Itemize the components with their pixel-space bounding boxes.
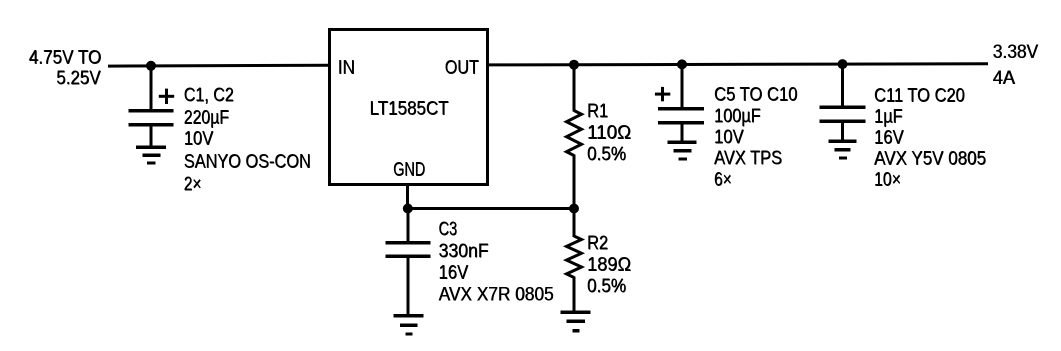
wire: rail down to C1 top plate <box>150 65 153 110</box>
svg-text:AVX X7R 0805: AVX X7R 0805 <box>439 283 554 305</box>
svg-text:GND: GND <box>393 159 425 181</box>
wire: R2 bottom to ground <box>573 277 576 312</box>
wire: C11 bottom plate to ground <box>841 123 844 140</box>
svg-text:4A: 4A <box>993 67 1016 89</box>
svg-text:3.38V: 3.38V <box>993 41 1039 63</box>
svg-text:2×: 2× <box>184 173 202 195</box>
svg-text:100µF: 100µF <box>714 105 761 127</box>
node: junction to C11-C20 <box>838 59 848 69</box>
svg-text:5.25V: 5.25V <box>56 67 101 89</box>
svg-text:IN: IN <box>338 57 355 79</box>
node: GND net junction <box>403 204 413 214</box>
op-amp/regulator U1 LT1585CT box <box>330 30 488 185</box>
ground symbol below R2 <box>561 311 591 333</box>
node: OUT junction to R1 <box>569 60 579 70</box>
svg-text:AVX TPS: AVX TPS <box>714 147 782 169</box>
wire: C3 bottom plate to ground <box>407 258 410 315</box>
svg-text:220µF: 220µF <box>184 107 229 129</box>
capacitor C3 top plate <box>386 241 431 245</box>
capacitor C5-C10 bottom plate <box>658 121 704 125</box>
capacitor C3 bottom plate <box>386 255 431 259</box>
capacitor C5-C10 top plate <box>658 107 704 111</box>
svg-text:R2: R2 <box>587 232 608 254</box>
node: input junction to C1 <box>146 61 156 71</box>
wire: GND node across to R2 node <box>408 207 574 210</box>
svg-text:10V: 10V <box>714 126 744 148</box>
svg-text:6×: 6× <box>714 169 732 191</box>
ground symbol below C5 <box>668 141 697 161</box>
capacitor C11-C20 top plate <box>820 106 866 110</box>
svg-text:110Ω: 110Ω <box>587 121 631 143</box>
polarity + sign for C1 <box>159 89 174 104</box>
resistor R1 zigzag <box>567 111 582 156</box>
svg-text:C3: C3 <box>439 218 458 240</box>
svg-text:0.5%: 0.5% <box>587 143 626 165</box>
ground symbol below C3 <box>394 314 424 336</box>
wire: divider node down to R2 <box>573 209 576 238</box>
svg-text:10×: 10× <box>874 168 901 190</box>
svg-text:SANYO OS-CON: SANYO OS-CON <box>184 151 311 173</box>
wire: input rail from source to IN pin <box>108 64 330 68</box>
wire: output rail from OUT pin to load <box>487 64 988 65</box>
svg-text:0.5%: 0.5% <box>587 275 626 297</box>
svg-text:R1: R1 <box>587 100 608 122</box>
capacitor C1,C2 top plate <box>129 109 174 113</box>
resistor R2 zigzag <box>567 236 582 278</box>
wire: GND node down to C3 <box>407 209 410 243</box>
wire: OUT rail down to R1 <box>573 65 576 112</box>
wire: C1 bottom plate to ground <box>150 127 153 147</box>
svg-text:C1, C2: C1, C2 <box>184 84 234 106</box>
svg-text:LT1585CT: LT1585CT <box>370 98 449 120</box>
svg-text:4.75V TO: 4.75V TO <box>29 47 101 69</box>
wire: rail down to C5 top plate <box>681 65 684 108</box>
wire: GND pin down to node <box>406 184 409 210</box>
svg-text:OUT: OUT <box>445 57 479 79</box>
wire: rail down to C11 top plate <box>841 65 844 106</box>
polarity + sign for C5 <box>655 87 670 101</box>
svg-text:16V: 16V <box>439 262 469 284</box>
svg-text:AVX Y5V 0805: AVX Y5V 0805 <box>874 147 986 169</box>
svg-text:16V: 16V <box>874 127 904 149</box>
svg-text:C11 TO C20: C11 TO C20 <box>874 85 965 107</box>
wire: R1 bottom to divider node <box>573 155 576 209</box>
node: junction to C5-C10 <box>677 59 687 69</box>
ground symbol below C11 <box>829 140 857 160</box>
ground symbol below C1 <box>136 146 166 165</box>
svg-text:10V: 10V <box>184 128 214 150</box>
capacitor C1,C2 bottom plate <box>129 123 174 127</box>
svg-text:189Ω: 189Ω <box>587 254 631 276</box>
svg-text:330nF: 330nF <box>439 240 489 262</box>
svg-text:1µF: 1µF <box>874 106 903 128</box>
capacitor C11-C20 bottom plate <box>820 120 866 124</box>
node: R1/R2 divider junction <box>569 204 579 214</box>
svg-text:C5 TO C10: C5 TO C10 <box>714 84 797 106</box>
wire: C5 bottom plate to ground <box>681 125 684 142</box>
